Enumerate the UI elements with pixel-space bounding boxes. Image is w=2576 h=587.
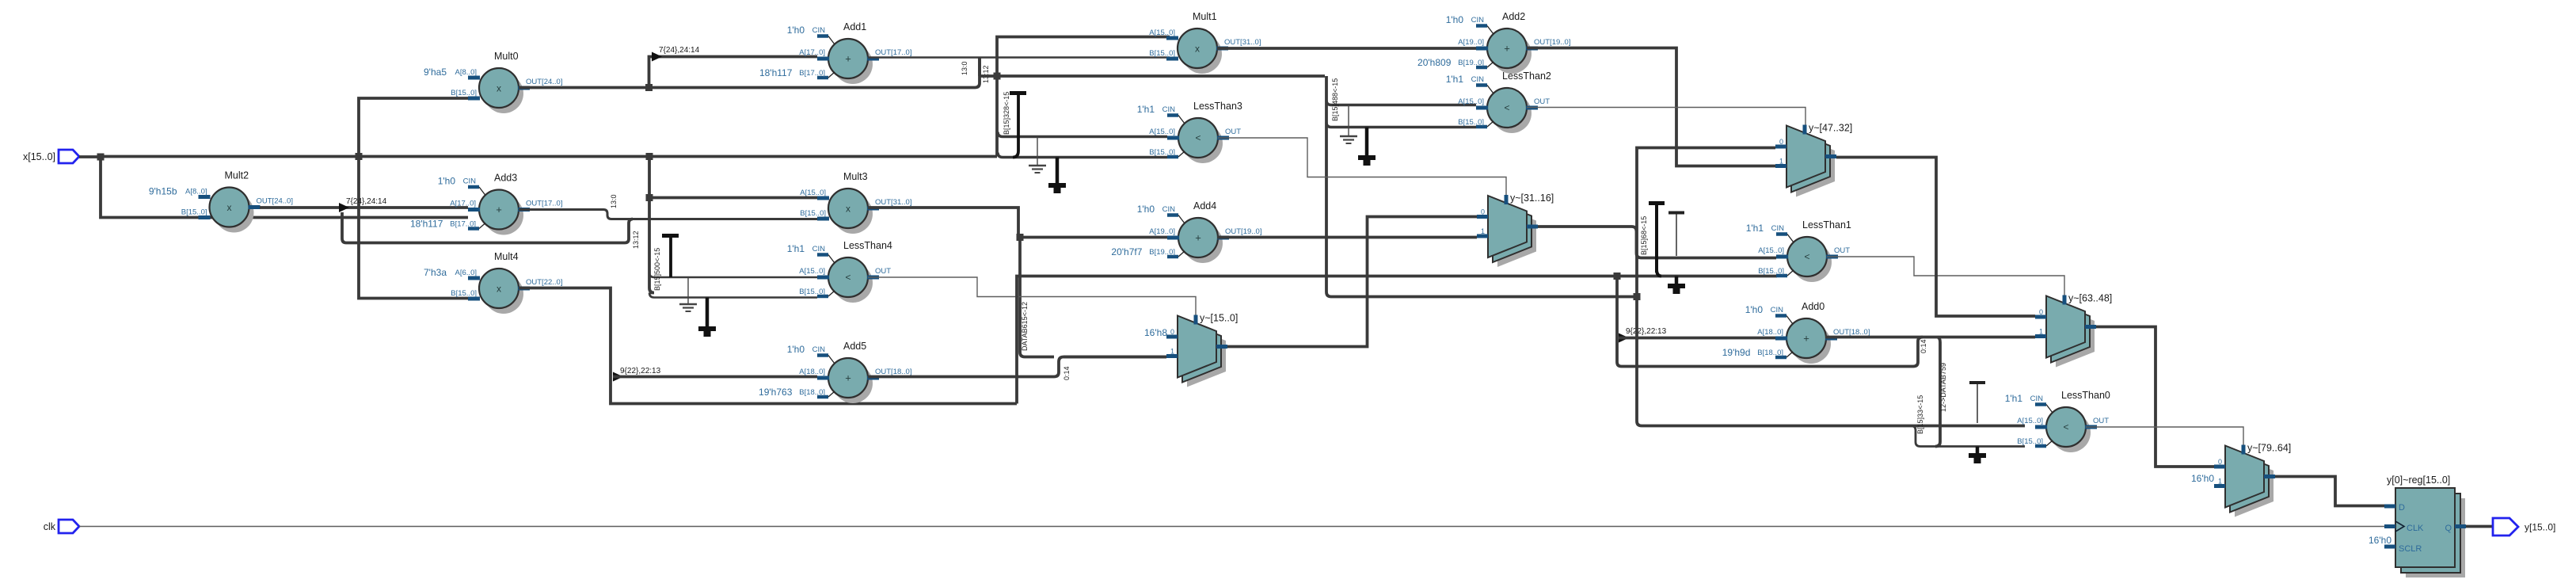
wire mux63.in1 riser	[1913, 337, 1923, 367]
svg-text:13:12: 13:12	[982, 65, 990, 83]
svg-text:0: 0	[1481, 208, 1485, 216]
svg-text:16'h0: 16'h0	[2191, 473, 2214, 484]
svg-text:9'ha5: 9'ha5	[424, 67, 447, 78]
svg-text:Add2: Add2	[1502, 11, 1525, 22]
svg-text:B[15]68<-15: B[15]68<-15	[1640, 216, 1648, 255]
svg-text:B[15..0]: B[15..0]	[800, 209, 826, 218]
svg-text:x: x	[497, 284, 501, 295]
svg-text:Mult3: Mult3	[843, 171, 868, 182]
svg-text:B[15..0]: B[15..0]	[181, 208, 207, 217]
wire Add4.OUT to mux31.in1	[1217, 236, 1477, 239]
tie T thin (LessThan1)	[1669, 213, 1684, 257]
wire x to Mult0.B	[359, 98, 468, 157]
svg-text:y~[31..16]: y~[31..16]	[1510, 192, 1554, 204]
mux y~[31..16]	[1477, 192, 1554, 267]
svg-text:Mult2: Mult2	[225, 170, 249, 181]
svg-text:1'h0: 1'h0	[1745, 304, 1764, 315]
svg-text:16'h0: 16'h0	[2369, 535, 2391, 546]
svg-text:B[15..0]: B[15..0]	[1149, 148, 1175, 157]
svg-text:19'h763: 19'h763	[759, 387, 793, 398]
svg-text:B[18..0]: B[18..0]	[1757, 349, 1783, 357]
svg-text:12->DATAB759: 12->DATAB759	[1939, 363, 1947, 412]
svg-text:7'h3a: 7'h3a	[424, 267, 447, 278]
input port clk	[44, 520, 79, 533]
label 0:14 rotated (Add5 rip)	[1063, 366, 1071, 380]
multiplier Mult2	[149, 170, 293, 233]
mux y~[63..48]	[2035, 293, 2112, 368]
wire LessThan3.A line	[998, 132, 1167, 137]
ground bold arrow (LessThan0)	[1969, 447, 1986, 464]
wire Mult2 low bits drop	[342, 212, 633, 243]
svg-text:1'h0: 1'h0	[1446, 14, 1464, 25]
wire Add0.OUT to mux63.in1	[1825, 336, 2035, 339]
node Mult3.A junction	[646, 194, 653, 201]
svg-text:CIN: CIN	[1162, 105, 1176, 114]
svg-text:<: <	[845, 272, 850, 283]
svg-text:B[15..0]: B[15..0]	[799, 288, 825, 296]
svg-text:A[8..0]: A[8..0]	[455, 68, 477, 77]
svg-text:1'h0: 1'h0	[787, 344, 805, 355]
svg-text:A[15..0]: A[15..0]	[1458, 97, 1484, 106]
svg-text:<: <	[1804, 251, 1809, 262]
svg-text:A[17..0]: A[17..0]	[450, 200, 476, 208]
svg-text:A[15..0]: A[15..0]	[1149, 29, 1175, 37]
mux y~[79..64]	[2214, 443, 2291, 517]
svg-text:y~[63..48]: y~[63..48]	[2068, 293, 2112, 304]
wire Mult1.OUT to Add2.A	[1217, 47, 1476, 50]
svg-text:Add1: Add1	[843, 21, 866, 32]
svg-text:1'h1: 1'h1	[787, 243, 805, 254]
svg-text:1: 1	[1170, 348, 1174, 356]
svg-text:OUT[31..0]: OUT[31..0]	[875, 198, 911, 207]
svg-text:1: 1	[1779, 158, 1783, 166]
svg-text:7{24},24:14: 7{24},24:14	[659, 46, 700, 55]
multiplier Mult0	[424, 51, 562, 113]
label 13:0 rotated (Add1 rip)	[961, 61, 968, 75]
svg-text:A[18..0]: A[18..0]	[799, 368, 825, 376]
svg-text:A[17..0]: A[17..0]	[799, 48, 825, 57]
adder Add1	[759, 21, 912, 84]
node Mult1 feed junction	[994, 73, 1001, 80]
svg-text:OUT[22..0]: OUT[22..0]	[526, 278, 562, 287]
svg-text:19'h9d: 19'h9d	[1722, 347, 1751, 358]
node DATAB6 junction	[1017, 234, 1024, 241]
wire rip to Add0.A	[1619, 337, 1775, 340]
svg-text:OUT[31..0]: OUT[31..0]	[1224, 38, 1261, 47]
svg-text:9{22},22:13: 9{22},22:13	[1626, 327, 1667, 336]
label 12->DATAB759 rotated	[1939, 363, 1947, 412]
svg-text:B[19..0]: B[19..0]	[1458, 59, 1484, 67]
svg-text:0: 0	[2218, 458, 2222, 466]
tie T (LessThan3)	[1010, 93, 1026, 158]
wire Add2.OUT to mux47.in1	[1527, 48, 1775, 166]
ground earth (LessThan3)	[1029, 137, 1046, 173]
svg-text:DATAB615<-12: DATAB615<-12	[1021, 302, 1029, 351]
svg-text:0: 0	[2039, 308, 2043, 316]
svg-text:x: x	[497, 83, 501, 94]
wire splice to junction	[980, 74, 997, 78]
bus rip 9{22},22:13 (Add0.A)	[1619, 327, 1667, 343]
svg-text:x: x	[1195, 44, 1200, 55]
label 0:14 rotated (Add0 rip)	[1920, 339, 1927, 353]
svg-text:0: 0	[1779, 138, 1783, 146]
svg-text:16'h8: 16'h8	[1144, 327, 1167, 338]
svg-text:CIN: CIN	[812, 345, 826, 354]
svg-text:13:0: 13:0	[610, 194, 618, 208]
svg-text:y~[15..0]: y~[15..0]	[1200, 313, 1238, 324]
svg-text:B[15..0]: B[15..0]	[451, 289, 477, 298]
ground bold (LessThan2)	[1358, 128, 1376, 166]
ground bold (LessThan3)	[1048, 158, 1066, 194]
svg-text:LessThan4: LessThan4	[843, 240, 892, 251]
svg-text:+: +	[1504, 43, 1510, 55]
svg-text:+: +	[1195, 232, 1201, 244]
wire rip to Add5.A	[613, 375, 817, 379]
svg-text:OUT[24..0]: OUT[24..0]	[526, 78, 562, 86]
wire LessThan2.OUT to mux47 sel	[1527, 108, 1805, 125]
adder Add4	[1111, 200, 1261, 263]
svg-text:A[15..0]: A[15..0]	[1758, 246, 1784, 255]
svg-text:13:12: 13:12	[632, 231, 640, 249]
label 13:12 rotated (Mult2 rip)	[632, 231, 640, 249]
svg-text:<: <	[2063, 421, 2068, 433]
wire x port to junction	[79, 155, 101, 158]
svg-text:Add0: Add0	[1802, 301, 1825, 312]
svg-text:OUT: OUT	[1225, 128, 1241, 136]
svg-text:+: +	[845, 372, 851, 384]
svg-text:A[18..0]: A[18..0]	[1757, 328, 1783, 337]
wire mux47.in0 feed	[1637, 148, 1775, 297]
svg-text:B[15]488<-15: B[15]488<-15	[1331, 78, 1339, 121]
svg-text:+: +	[496, 204, 502, 215]
adder Add5	[759, 341, 911, 403]
svg-text:B[15]328<-15: B[15]328<-15	[1003, 92, 1010, 135]
wire Add3.OUT to Mult3.B	[519, 210, 817, 219]
output port y[15..0]	[2493, 518, 2555, 536]
node x-bus junction B	[356, 153, 363, 160]
wire Add1 splice vertical	[978, 58, 981, 77]
svg-text:B[15..0]: B[15..0]	[1458, 118, 1484, 127]
svg-text:CIN: CIN	[463, 177, 477, 186]
wire rip to LessThan4.A	[649, 273, 817, 277]
tie T thin (LessThan0)	[1969, 383, 1985, 423]
mux79 const 16'h0	[2191, 473, 2214, 484]
svg-text:7{24},24:14: 7{24},24:14	[346, 197, 387, 206]
adder Add3	[410, 173, 563, 235]
svg-text:Add5: Add5	[843, 341, 866, 352]
wire mux47.OUT to mux63.in0	[1836, 158, 2035, 317]
svg-text:x[15..0]: x[15..0]	[23, 151, 55, 162]
tie T bold (LessThan1)	[1649, 204, 1665, 276]
svg-text:y[0]~reg[15..0]: y[0]~reg[15..0]	[2387, 475, 2450, 486]
label B[15]500<-15 rotated	[653, 248, 661, 291]
svg-text:18'h117: 18'h117	[410, 219, 443, 230]
svg-text:1: 1	[2039, 328, 2043, 336]
mux15 const 16'h8	[1144, 327, 1167, 338]
label 13:12 rotated (Add1 rip)	[982, 65, 990, 83]
wire Add1.OUT to Mult1.B	[868, 56, 1170, 59]
wire clk line	[79, 526, 2384, 528]
wire x2042 vertical	[1617, 276, 1913, 367]
svg-text:CLK: CLK	[2407, 524, 2424, 533]
svg-text:LessThan2: LessThan2	[1502, 71, 1551, 82]
label B[15]328<-15 rotated	[1003, 92, 1010, 135]
wire rip to LessThan2.B	[1326, 123, 1476, 128]
svg-text:x: x	[227, 202, 232, 213]
ground bold arrow (LessThan1)	[1668, 276, 1685, 295]
svg-text:y[15..0]: y[15..0]	[2525, 522, 2555, 533]
wire rip to LessThan4.B	[649, 293, 817, 298]
svg-text:1'h0: 1'h0	[1137, 204, 1155, 215]
wire rip to LessThan2.A	[1326, 101, 1476, 105]
svg-text:0:14: 0:14	[1920, 339, 1927, 353]
svg-text:1'h0: 1'h0	[438, 176, 456, 187]
wire LessThan0.OUT to mux79 sel	[2086, 427, 2243, 445]
comparator LessThan1	[1746, 219, 1851, 282]
multiplier Mult4	[424, 251, 562, 314]
svg-text:13:0: 13:0	[961, 61, 968, 75]
label 13:0 rotated (Add3 rip)	[610, 194, 618, 208]
svg-text:+: +	[1803, 333, 1809, 345]
svg-text:CIN: CIN	[1471, 16, 1485, 25]
wire LessThan4.OUT to mux15 sel	[868, 277, 1196, 315]
svg-text:OUT[19..0]: OUT[19..0]	[1225, 227, 1261, 236]
wire W1 rise	[1017, 276, 1777, 404]
svg-text:1'h1: 1'h1	[1446, 74, 1464, 85]
wire vertical x1672	[1326, 76, 1637, 297]
svg-text:A[15..0]: A[15..0]	[799, 267, 825, 276]
node Mult0.OUT junction	[645, 84, 653, 91]
svg-text:<: <	[1504, 102, 1509, 113]
wire DATAB615 drop	[1020, 238, 1054, 357]
wire LessThan3.OUT to mux sel	[1218, 138, 1506, 195]
svg-text:x: x	[846, 204, 850, 215]
svg-text:B[19..0]: B[19..0]	[1149, 248, 1175, 257]
svg-text:+: +	[845, 53, 851, 65]
svg-text:1'h0: 1'h0	[787, 25, 805, 36]
mux y~[47..32]	[1775, 123, 1852, 197]
svg-text:9{22},22:13: 9{22},22:13	[620, 367, 661, 375]
svg-text:1'h1: 1'h1	[1746, 223, 1764, 234]
svg-text:CIN: CIN	[1162, 205, 1176, 214]
bus rip 7{24},24:14 (Add1.A)	[652, 46, 700, 62]
svg-text:LessThan0: LessThan0	[2061, 390, 2110, 401]
svg-text:B[15]33<-15: B[15]33<-15	[1916, 395, 1924, 434]
svg-text:A[15..0]: A[15..0]	[1149, 128, 1175, 136]
wire Mult0.OUT rise to Add1.A	[649, 57, 818, 88]
svg-text:OUT[17..0]: OUT[17..0]	[526, 200, 562, 208]
svg-text:y~[47..32]: y~[47..32]	[1809, 123, 1852, 134]
bus rip 9{22},22:13 (Add5.A)	[613, 367, 661, 382]
svg-text:SCLR: SCLR	[2399, 544, 2422, 554]
wire LessThan3.B line	[998, 153, 1167, 158]
wire LessThan0.B jog	[1911, 426, 2025, 447]
wire DATAB759 drop	[1935, 337, 1940, 447]
svg-text:CIN: CIN	[812, 26, 826, 35]
svg-text:A[15..0]: A[15..0]	[800, 189, 826, 197]
wire Q to output port	[2466, 525, 2493, 528]
svg-text:20'h809: 20'h809	[1417, 57, 1452, 68]
svg-text:LessThan1: LessThan1	[1802, 219, 1851, 231]
wire x-bus main	[101, 155, 997, 158]
svg-text:0: 0	[1170, 328, 1174, 336]
node x-bus junction C	[646, 153, 653, 160]
svg-text:CIN: CIN	[1771, 306, 1784, 314]
svg-text:Add4: Add4	[1193, 200, 1216, 212]
wire LessThan0.A feed	[1637, 297, 2025, 426]
svg-text:OUT: OUT	[2093, 417, 2109, 425]
wire Mult3.OUT to Add4.A	[868, 208, 1167, 238]
label B[15]33<-15 rotated	[1916, 395, 1924, 434]
svg-text:clk: clk	[44, 521, 56, 532]
wire x-bus rise to Mult1.A	[997, 37, 1170, 157]
svg-text:OUT: OUT	[1834, 246, 1850, 255]
svg-text:B[17..0]: B[17..0]	[799, 69, 825, 78]
svg-text:Add3: Add3	[494, 173, 517, 184]
label B[15]488<-15 rotated	[1331, 78, 1339, 121]
svg-text:OUT: OUT	[1534, 97, 1550, 106]
svg-text:OUT[19..0]: OUT[19..0]	[1534, 38, 1570, 47]
svg-text:CIN: CIN	[812, 245, 826, 253]
wire Mult0 low bits merge	[975, 58, 980, 88]
svg-text:B[17..0]: B[17..0]	[450, 220, 476, 229]
svg-text:OUT: OUT	[875, 267, 891, 276]
wire Mult0.OUT	[519, 86, 975, 90]
svg-text:20'h7f7: 20'h7f7	[1111, 246, 1142, 257]
wire mux63.OUT to mux79.in0	[2096, 327, 2214, 467]
ground earth (LessThan4)	[679, 277, 697, 311]
register y[0]~reg[15..0]	[2369, 475, 2466, 577]
wire x to Mult4.B	[359, 157, 468, 299]
wire x to Mult3.A	[649, 196, 817, 200]
comparator LessThan0	[2005, 390, 2110, 452]
svg-text:9'h15b: 9'h15b	[149, 186, 177, 197]
node W2 junction	[1634, 293, 1641, 300]
svg-text:CIN: CIN	[2030, 395, 2044, 403]
svg-text:B[15..0]: B[15..0]	[2017, 437, 2043, 446]
multiplier Mult3	[800, 171, 911, 234]
svg-text:OUT[17..0]: OUT[17..0]	[875, 48, 911, 57]
comparator LessThan3	[1137, 101, 1242, 163]
label B[15]68<-15 rotated	[1640, 216, 1648, 255]
svg-text:1: 1	[1481, 227, 1485, 235]
svg-text:A[19..0]: A[19..0]	[1149, 227, 1175, 236]
wire mux15.OUT to mux31 chain	[1227, 217, 1477, 347]
svg-text:OUT[24..0]: OUT[24..0]	[257, 197, 293, 206]
svg-text:B[15..0]: B[15..0]	[451, 89, 477, 97]
svg-text:B[15]500<-15: B[15]500<-15	[653, 248, 661, 291]
svg-text:Mult0: Mult0	[494, 51, 519, 62]
wire x vertical to LessThan4	[649, 157, 654, 293]
svg-text:A[19..0]: A[19..0]	[1458, 38, 1484, 47]
svg-text:18'h117: 18'h117	[759, 67, 793, 78]
wire x to Mult2.B	[101, 157, 468, 218]
bus rip 7{24},24:14 (Mult2)	[339, 197, 387, 212]
svg-text:A[15..0]: A[15..0]	[2017, 417, 2043, 425]
svg-text:Q: Q	[2445, 524, 2452, 533]
svg-text:B[15..0]: B[15..0]	[1149, 49, 1175, 58]
wire Mult4.OUT down	[519, 288, 1017, 404]
svg-text:1: 1	[2218, 478, 2222, 486]
svg-text:1'h1: 1'h1	[2005, 393, 2023, 404]
svg-text:Mult4: Mult4	[494, 251, 519, 262]
svg-text:0:14: 0:14	[1063, 366, 1071, 380]
comparator LessThan2	[1446, 71, 1551, 133]
multiplier Mult1	[1149, 11, 1261, 74]
comparator LessThan4	[787, 240, 892, 303]
node x-bus junction A	[97, 154, 105, 161]
tie T (LessThan4)	[662, 236, 679, 278]
svg-text:OUT[18..0]: OUT[18..0]	[875, 368, 911, 376]
wire LessThan1.OUT to mux63 sel	[1827, 257, 2064, 295]
input port x[15..0]	[23, 150, 79, 163]
adder Add2	[1417, 11, 1570, 74]
svg-text:A[6..0]: A[6..0]	[455, 269, 477, 277]
adder Add0	[1722, 301, 1870, 364]
svg-text:B[15..0]: B[15..0]	[1758, 267, 1784, 276]
svg-text:CIN: CIN	[1471, 75, 1485, 84]
svg-text:<: <	[1195, 132, 1200, 143]
wire mux31.OUT to LessThan1.A	[1538, 227, 1776, 258]
svg-text:CIN: CIN	[1771, 224, 1785, 233]
ground earth (LessThan2)	[1340, 105, 1357, 143]
svg-text:1'h1: 1'h1	[1137, 104, 1155, 115]
svg-text:B[18..0]: B[18..0]	[799, 388, 825, 397]
wire Mult2.OUT to Add3.A	[260, 206, 468, 209]
svg-text:D: D	[2399, 503, 2405, 513]
svg-text:Mult1: Mult1	[1193, 11, 1217, 22]
node W1 junction	[1614, 273, 1621, 280]
wire mux15.in1 line	[1064, 356, 1166, 359]
svg-text:A[8..0]: A[8..0]	[185, 188, 207, 196]
mux y~[15..0]	[1166, 313, 1238, 387]
svg-text:OUT[18..0]: OUT[18..0]	[1833, 328, 1870, 337]
wire Add5.OUT	[868, 357, 1166, 377]
wire y96 bus	[997, 74, 1325, 78]
svg-text:LessThan3: LessThan3	[1193, 101, 1242, 112]
svg-text:y~[79..64]: y~[79..64]	[2247, 443, 2291, 454]
label DATAB615<-12 rotated	[1021, 302, 1029, 351]
wire mux79.OUT to register D	[2275, 477, 2384, 506]
ground bold (LessThan4)	[698, 298, 716, 337]
